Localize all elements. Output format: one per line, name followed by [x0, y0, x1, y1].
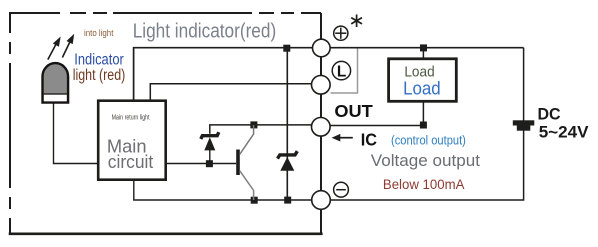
wire: gray link from + rail down to L terminal: [331, 49, 358, 94]
svg-text:DC: DC: [538, 104, 561, 123]
sensor enclosure dashed border (left): [9, 12, 11, 234]
sensor enclosure border (bottom): [9, 233, 323, 236]
LED indicator (dome): [43, 63, 69, 102]
wire: OUT terminal to load bottom (y=125.5): [331, 102, 424, 126]
wire: load top stub: [422, 48, 424, 58]
wire: L rail from main-circuit drop to L terminal (y=84): [150, 84, 312, 100]
junction on + rail at zener D2: [283, 45, 290, 52]
light emission arrow 1: [48, 37, 61, 60]
arrow into OUT terminal: [332, 134, 353, 142]
sensor enclosure dashed border (top): [10, 12, 321, 14]
junction D1 / base node: [206, 160, 213, 167]
svg-text:OUT: OUT: [334, 101, 373, 121]
junction collector rail: [250, 121, 257, 128]
transistor Q1 (NPN): [236, 125, 253, 200]
svg-text:into light: into light: [84, 28, 114, 38]
wire: inner collector rail (y=125) from zener D1 to OUT terminal: [210, 125, 312, 134]
svg-text:circuit: circuit: [108, 151, 153, 172]
zener diode D2 (cathode up): [278, 151, 298, 171]
terminal circle minus: [312, 191, 331, 210]
wire: DC right-side return (down to battery, then bottom to minus terminal): [331, 48, 524, 200]
svg-text:Below 100mA: Below 100mA: [383, 176, 465, 192]
wire: emitter rail from main-circuit bottom to minus terminal (y=200): [134, 181, 312, 200]
svg-text:L: L: [337, 64, 346, 81]
svg-text:Load: Load: [403, 79, 441, 99]
junction load bottom / OUT wire: [420, 122, 427, 129]
wire: terminal strip vertical line (sensor right edge, x=321): [320, 13, 322, 234]
wire: minus terminal stub to bottom border: [320, 200, 322, 234]
main circuit box: [98, 101, 166, 180]
junction on + rail above load: [420, 44, 427, 51]
wire: + rail from light-indicator drop to DC corner (y=48): [134, 48, 524, 100]
svg-text:IC: IC: [361, 129, 378, 149]
battery symbol (DC source): [513, 120, 535, 130]
symbol: circled minus: [334, 182, 349, 197]
symbol: circled L: [332, 61, 350, 80]
wire: base wire from main circuit through D1 node to transistor base: [167, 163, 236, 165]
symbol: asterisk: [351, 15, 362, 28]
junction emitter / bottom rail: [251, 197, 258, 204]
svg-text:(control output): (control output): [391, 134, 466, 148]
terminal circle OUT: [312, 118, 331, 137]
wire: zener D2 vertical (from + rail junction to bottom rail): [286, 48, 288, 200]
light emission arrow 2: [62, 34, 74, 58]
svg-text:light (red): light (red): [73, 67, 126, 84]
terminal circle L: [312, 76, 331, 95]
wire: zener D1 bottom lead: [209, 150, 211, 164]
wire: LED cathode lead down and right into main circuit: [54, 103, 98, 164]
terminal circle + (plus): [313, 39, 331, 57]
junction D2 / bottom rail: [284, 197, 291, 204]
zener diode D1 (cathode up): [201, 132, 219, 150]
load box: [389, 59, 457, 102]
svg-text:Light indicator(red): Light indicator(red): [133, 21, 277, 43]
svg-text:Voltage output: Voltage output: [371, 151, 480, 170]
svg-text:5~24V: 5~24V: [539, 123, 589, 142]
svg-text:Main return light: Main return light: [112, 114, 150, 121]
symbol: circled plus: [334, 26, 348, 40]
